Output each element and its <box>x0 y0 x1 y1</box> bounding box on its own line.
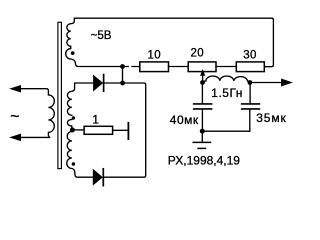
diode VD1 <box>104 82 122 84</box>
svg-text:35мк: 35мк <box>256 111 286 125</box>
wire: junction to R10 (with scan gap) <box>123 66 140 68</box>
svg-text:30: 30 <box>243 50 257 62</box>
wire node to C1 <box>201 83 203 104</box>
resistor R20 <box>188 62 216 72</box>
transformer T1 primary winding <box>20 89 54 138</box>
diode VD2 <box>93 170 102 185</box>
secondary winding W2 upper half <box>67 83 93 115</box>
secondary winding W1 (~5V) <box>66 18 272 66</box>
svg-text:~: ~ <box>10 108 19 125</box>
wire R1 to terminal <box>113 129 128 131</box>
svg-text:20: 20 <box>191 47 205 59</box>
wire R20-R30 <box>216 66 236 68</box>
ground <box>201 131 203 142</box>
inductor L1 1.5H <box>203 76 250 82</box>
wire: junction down to diode row <box>122 67 124 84</box>
wire: diode row right then down <box>104 83 146 177</box>
node junction diode row <box>120 81 125 86</box>
capacitor C1 40uF <box>194 103 212 105</box>
big loop right side wire <box>265 18 274 66</box>
svg-text:~5В: ~5В <box>91 29 112 42</box>
polarity dot W2 lower <box>72 162 75 165</box>
node inductor left <box>200 80 205 85</box>
node junction top row <box>120 64 125 69</box>
secondary winding W2 lower half <box>67 132 93 178</box>
polarity dot W2 upper <box>72 116 75 119</box>
svg-text:РХ,1998,4,19: РХ,1998,4,19 <box>168 153 241 167</box>
node ground junction <box>200 129 205 134</box>
polarity dot W1 <box>71 51 75 55</box>
terminal bar <box>127 123 129 139</box>
bottom wire C1 node to C2 <box>202 130 250 132</box>
node inductor right <box>248 80 253 85</box>
transformer T1 core <box>58 22 62 168</box>
capacitor C2 35uF <box>242 103 260 105</box>
output arrow <box>250 82 282 84</box>
resistor R10 <box>140 62 169 72</box>
wire node to C2 <box>249 83 251 104</box>
svg-text:40мк: 40мк <box>170 113 199 127</box>
node tap junction <box>70 127 75 132</box>
svg-text:1.5Гн: 1.5Гн <box>211 86 243 100</box>
svg-text:1: 1 <box>92 112 99 126</box>
tap wire winding to R1 <box>73 129 84 131</box>
AC input arrow top <box>10 86 20 92</box>
resistor R1 <box>84 126 113 134</box>
AC input arrow bottom <box>10 134 20 140</box>
wiper arrow at R20 <box>202 74 204 83</box>
resistor R30 <box>236 62 264 72</box>
wire R10-R20 <box>169 66 189 68</box>
svg-text:10: 10 <box>148 50 162 62</box>
